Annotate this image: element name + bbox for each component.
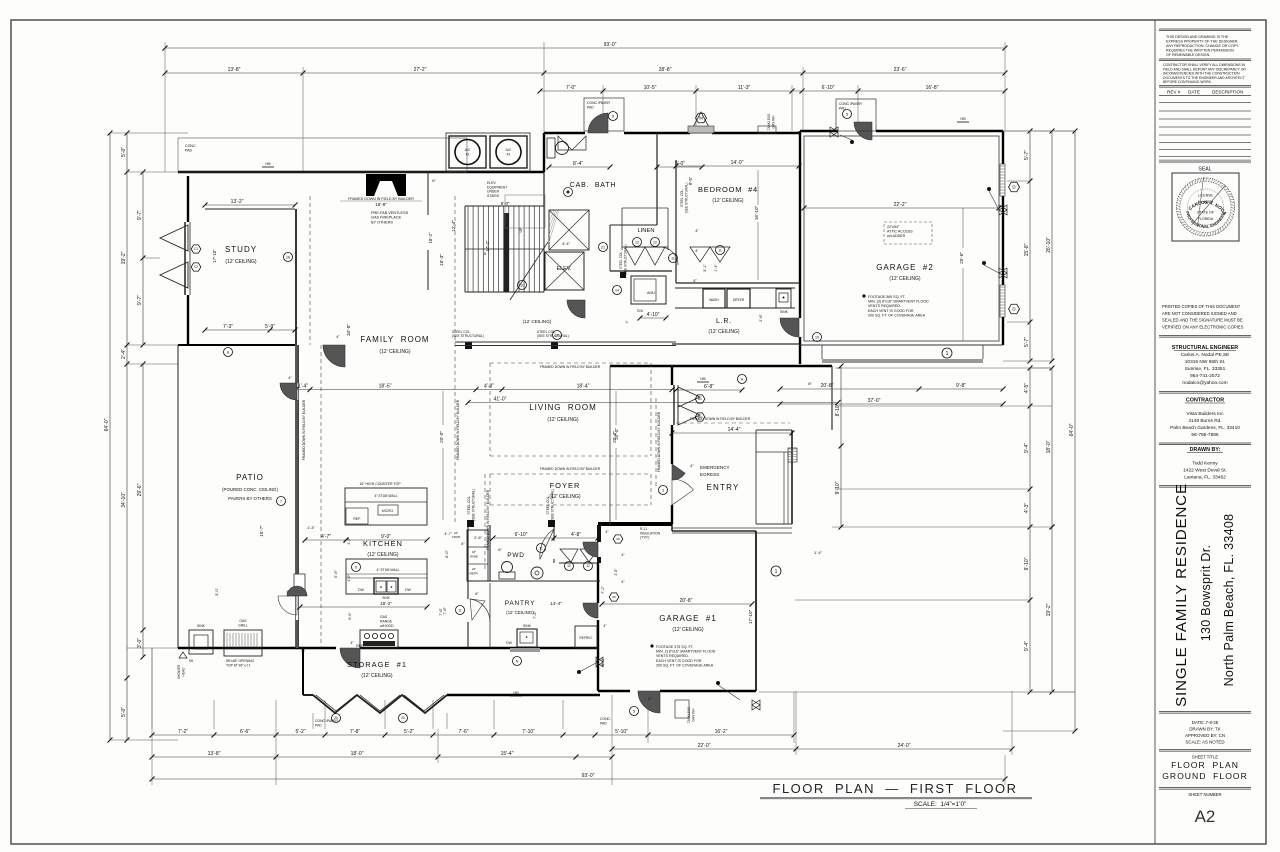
kitchen xyxy=(298,482,430,609)
pwd dims xyxy=(461,532,600,596)
left dim 64'-0" xyxy=(104,131,112,743)
sheet info block xyxy=(1159,712,1251,827)
hb bottom xyxy=(510,691,522,696)
svg-text:09: 09 xyxy=(616,537,620,541)
svg-text:1’-4”: 1’-4” xyxy=(814,550,823,555)
svg-text:AHU: AHU xyxy=(647,291,655,295)
svg-text:17’-10”: 17’-10” xyxy=(748,609,753,624)
svg-text:27’-2”: 27’-2” xyxy=(414,67,427,73)
svg-text:VENTS REQUIRED.: VENTS REQUIRED. xyxy=(868,304,901,308)
svg-text:STEEL COL.: STEEL COL. xyxy=(467,495,471,514)
svg-text:4’: 4’ xyxy=(625,320,629,323)
svg-text:DATE: 7-8-25: DATE: 7-8-25 xyxy=(1192,720,1219,725)
svg-text:(POURED CONC. CEILING): (POURED CONC. CEILING) xyxy=(222,487,278,492)
bottom dim row1 xyxy=(150,729,797,737)
svg-text:13’-2”: 13’-2” xyxy=(231,199,244,205)
svg-text:REF.: REF. xyxy=(353,517,360,521)
window M top xyxy=(688,112,714,133)
svg-text:FAMILY ROOM: FAMILY ROOM xyxy=(360,335,429,344)
svg-text:TANKLESS: TANKLESS xyxy=(767,114,771,130)
svg-text:6’-0”: 6’-0” xyxy=(445,549,449,557)
svg-text:OF RENEWABLE DESIGN.: OF RENEWABLE DESIGN. xyxy=(1166,53,1210,57)
entry xyxy=(614,427,794,505)
svg-text:FOYER: FOYER xyxy=(550,481,581,490)
svg-text:5’-2”: 5’-2” xyxy=(404,729,414,735)
bedroom #4 xyxy=(674,160,802,280)
dim chain x841 xyxy=(835,364,843,530)
svg-text:6’-8”: 6’-8” xyxy=(704,384,714,390)
right ext lines xyxy=(759,131,1075,692)
garage #1 xyxy=(600,566,781,710)
study circ16 xyxy=(284,253,293,262)
study label xyxy=(225,245,257,265)
svg-text:KITCHEN: KITCHEN xyxy=(363,539,403,548)
svg-text:17’-10”: 17’-10” xyxy=(212,249,217,263)
svg-text:7’-0”: 7’-0” xyxy=(566,85,576,91)
framed down vert right xyxy=(656,398,661,487)
svg-text:CAB. BATH: CAB. BATH xyxy=(570,182,616,189)
svg-text:LIVING ROOM: LIVING ROOM xyxy=(529,403,597,412)
door 09 top xyxy=(583,530,623,557)
storage bays xyxy=(303,695,447,723)
bath closet doors xyxy=(560,549,598,571)
svg-text:4’-7”: 4’-7” xyxy=(444,532,452,536)
svg-text:SINK: SINK xyxy=(780,310,789,314)
svg-text:LICENSE: LICENSE xyxy=(1198,194,1213,198)
svg-text:18’-2”: 18’-2” xyxy=(380,601,392,606)
ref label xyxy=(303,525,449,648)
svg-text:BY OTHERS: BY OTHERS xyxy=(371,220,393,224)
svg-text:A/C: A/C xyxy=(506,148,512,152)
svg-text:Todd Kenny: Todd Kenny xyxy=(1192,461,1218,467)
exterior walls xyxy=(178,131,1003,695)
svg-text:16’-8”: 16’-8” xyxy=(926,85,939,91)
svg-text:DRYER: DRYER xyxy=(733,298,745,302)
bottom wall extension lines xyxy=(152,648,794,743)
top dim row2 xyxy=(163,67,1008,75)
stairs notes xyxy=(428,181,545,266)
svg-text:64’-0”: 64’-0” xyxy=(1069,423,1075,436)
svg-text:ATTIC ACCESS: ATTIC ACCESS xyxy=(887,230,913,234)
svg-text:25’-6”: 25’-6” xyxy=(959,252,964,264)
svg-text:EMERGENCY: EMERGENCY xyxy=(700,465,730,470)
title block divider xyxy=(1154,20,1156,844)
laundry room xyxy=(693,279,791,335)
svg-text:200 SQ. FT. OF COVERAGE AREA: 200 SQ. FT. OF COVERAGE AREA xyxy=(868,314,926,318)
tankless gas wh label xyxy=(758,114,776,133)
svg-text:STAIRS: STAIRS xyxy=(487,194,500,198)
svg-text:GARAGE #2: GARAGE #2 xyxy=(876,263,934,272)
hall label xyxy=(518,281,562,340)
svg-text:(SEE STRUCTURAL): (SEE STRUCTURAL) xyxy=(472,489,476,521)
svg-text:SHEET TITLE: SHEET TITLE xyxy=(1192,755,1219,760)
steel col labels xyxy=(452,330,676,349)
svg-text:200 SQ. FT. OF COVERAGE AREA: 200 SQ. FT. OF COVERAGE AREA xyxy=(656,664,714,668)
stairs xyxy=(465,206,548,300)
svg-text:R/A: R/A xyxy=(637,309,643,313)
top dim extenders xyxy=(165,42,1005,172)
svg-text:STRUCTURAL ENGINEER: STRUCTURAL ENGINEER xyxy=(1172,345,1238,351)
hose bib HB top xyxy=(262,162,274,167)
svg-text:RANGE: RANGE xyxy=(380,620,393,624)
garage2 door5 xyxy=(836,99,876,140)
svg-text:SHOWER: SHOWER xyxy=(177,664,181,679)
svg-text:15’-7”: 15’-7” xyxy=(259,525,264,537)
svg-text:REV #: REV # xyxy=(1167,90,1181,95)
bedroom doors xyxy=(690,246,730,263)
svg-text:4’-5”: 4’-5” xyxy=(1024,383,1030,393)
svg-text:(12’ CEILING): (12’ CEILING) xyxy=(549,494,581,500)
svg-text:22’-2”: 22’-2” xyxy=(894,202,907,208)
svg-text:C1: C1 xyxy=(194,247,198,251)
svg-text:9’-10”: 9’-10” xyxy=(1024,557,1030,570)
svg-text:FRAMED DOWN IN FIELD BY BUILDE: FRAMED DOWN IN FIELD BY BUILDER xyxy=(657,411,661,472)
svg-text:4’-0”: 4’-0” xyxy=(347,574,351,582)
svg-text:CONTRACTOR: CONTRACTOR xyxy=(1186,398,1224,404)
svg-text:FOOTAGE 565 SQ. FT.: FOOTAGE 565 SQ. FT. xyxy=(868,295,906,299)
svg-text:7’-6”: 7’-6” xyxy=(439,607,443,615)
svg-text:HB: HB xyxy=(265,162,271,166)
entry bays xyxy=(674,385,705,425)
svg-text:64’-0”: 64’-0” xyxy=(104,418,110,431)
svg-text:ANY REPRODUCTION, CHANGE OR CO: ANY REPRODUCTION, CHANGE OR COPY xyxy=(1166,44,1239,48)
svg-text:93’-0”: 93’-0” xyxy=(604,42,617,48)
svg-text:Vista Builders Inc: Vista Builders Inc xyxy=(1187,411,1225,417)
patio door lower xyxy=(278,563,361,616)
svg-text:21: 21 xyxy=(601,245,605,249)
svg-text:PAD: PAD xyxy=(315,723,322,727)
storage door xyxy=(340,641,360,668)
conc pad bottom right xyxy=(600,717,611,725)
svg-text:6’-0”: 6’-0” xyxy=(348,612,352,620)
svg-text:DRAWN BY: TK: DRAWN BY: TK xyxy=(1189,727,1220,732)
framed down right2 xyxy=(676,417,790,423)
svg-text:REFR.: REFR. xyxy=(470,572,479,576)
closet stack xyxy=(444,530,488,581)
svg-text:PAD: PAD xyxy=(587,105,594,109)
svg-text:SINK: SINK xyxy=(197,624,206,628)
bottom dim extenders xyxy=(152,648,1012,785)
svg-text:(12’ CEILING): (12’ CEILING) xyxy=(523,319,552,324)
svg-text:16’-10”: 16’-10” xyxy=(754,205,759,220)
r11 note xyxy=(640,527,661,540)
svg-text:10’-5”: 10’-5” xyxy=(644,85,657,91)
svg-text:7’-8”: 7’-8” xyxy=(350,729,360,735)
family room dashed xyxy=(302,196,460,648)
svg-text:1: 1 xyxy=(946,351,949,357)
fireplace xyxy=(366,174,406,196)
svg-text:37’-0”: 37’-0” xyxy=(868,398,881,404)
svg-text:N: N xyxy=(516,659,519,663)
svg-text:FRAMED DOWN IN FIELD BY BUILDE: FRAMED DOWN IN FIELD BY BUILDER xyxy=(540,365,601,369)
svg-text:SEALED AND THE SIGNATURE MUST: SEALED AND THE SIGNATURE MUST BE xyxy=(1162,318,1243,323)
svg-text:11: 11 xyxy=(520,283,524,287)
svg-text:3: 3 xyxy=(662,488,664,492)
svg-text:12: 12 xyxy=(635,240,639,244)
svg-text:20’-0”: 20’-0” xyxy=(439,431,444,443)
svg-text:(TYP.): (TYP.) xyxy=(640,536,649,540)
svg-text:4” STUB WALL: 4” STUB WALL xyxy=(376,568,399,572)
bowtie bottom xyxy=(577,657,603,674)
porch step dim xyxy=(672,430,823,555)
svg-text:North Palm Beach, FL. 33408: North Palm Beach, FL. 33408 xyxy=(1222,514,1236,687)
revision table rows xyxy=(1159,103,1251,164)
svg-text:EXPRESS PROPERTY OF THE DESIGN: EXPRESS PROPERTY OF THE DESIGNER. xyxy=(1166,40,1239,44)
svg-text:12: 12 xyxy=(586,564,590,568)
svg-text:Lantana, FL. 33462: Lantana, FL. 33462 xyxy=(1184,475,1226,481)
svg-text:PAD: PAD xyxy=(185,149,193,153)
drawing title xyxy=(760,781,1032,809)
svg-text:GARAGE #1: GARAGE #1 xyxy=(659,614,717,623)
svg-text:6: 6 xyxy=(355,565,357,569)
linen xyxy=(622,228,668,265)
sink pantry xyxy=(506,624,537,647)
svg-text:#1: #1 xyxy=(507,153,511,157)
svg-text:5’-9”: 5’-9” xyxy=(265,324,275,330)
svg-text:SINGLE FAMILY RESIDENCE: SINGLE FAMILY RESIDENCE xyxy=(1173,483,1190,707)
svg-text:(SEE STRUCTURAL): (SEE STRUCTURAL) xyxy=(624,245,628,276)
svg-text:10316 NW 55th St.: 10316 NW 55th St. xyxy=(1185,359,1226,365)
left dim chain4 xyxy=(137,362,145,660)
svg-text:9’-7”: 9’-7” xyxy=(137,210,143,220)
svg-text:2’-8”: 2’-8” xyxy=(614,568,618,576)
svg-text:FLOOR PLAN — FIRST FLOOR: FLOOR PLAN — FIRST FLOOR xyxy=(773,781,1018,796)
svg-text:4’-4”: 4’-4” xyxy=(562,241,571,246)
pantry walls xyxy=(468,525,490,648)
svg-text:SINK: SINK xyxy=(523,624,532,628)
svg-text:(SEE STRUCTURAL): (SEE STRUCTURAL) xyxy=(537,334,569,338)
svg-text:7’-3”: 7’-3” xyxy=(223,324,233,330)
foyer label xyxy=(549,481,581,500)
svg-text:18’-0”: 18’-0” xyxy=(1046,440,1052,453)
svg-text:GAS: GAS xyxy=(239,619,247,623)
svg-text:9’-7”: 9’-7” xyxy=(137,295,143,305)
svg-text:9’-4”: 9’-4” xyxy=(1024,443,1030,453)
patio label xyxy=(222,473,285,506)
svg-text:FLORIDA: FLORIDA xyxy=(1198,217,1214,221)
svg-text:HB: HB xyxy=(700,377,706,381)
hb A bottom xyxy=(674,375,747,393)
pwd walls xyxy=(467,525,601,581)
svg-text:FOOTAGE 375 SQ. FT.: FOOTAGE 375 SQ. FT. xyxy=(656,645,694,649)
elevator xyxy=(545,241,608,290)
engineer/contractor/drawn-by block xyxy=(1159,304,1251,487)
svg-text:130 Bowsprit Dr.: 130 Bowsprit Dr. xyxy=(1199,545,1213,642)
svg-text:FRAMED DOWN IN FIELD BY BUILDE: FRAMED DOWN IN FIELD BY BUILDER xyxy=(348,197,414,201)
svg-text:5’-7”: 5’-7” xyxy=(1024,337,1030,347)
svg-text:DATE: DATE xyxy=(1188,90,1200,95)
svg-text:11: 11 xyxy=(718,248,722,252)
svg-text:DW: DW xyxy=(358,588,364,592)
svg-text:4” STUB WALL: 4” STUB WALL xyxy=(374,494,397,498)
svg-text:3’-0”: 3’-0” xyxy=(137,638,143,648)
svg-text:EACH VENT IS GOOD FOR: EACH VENT IS GOOD FOR xyxy=(868,309,914,313)
svg-text:PRINTED COPIES OF THIS DOCUMEN: PRINTED COPIES OF THIS DOCUMENT xyxy=(1162,304,1241,309)
svg-text:11: 11 xyxy=(458,608,462,612)
svg-text:18’-4”: 18’-4” xyxy=(577,384,590,390)
revision table header xyxy=(1159,29,1251,96)
refrig xyxy=(575,626,597,648)
svg-text:CONC.: CONC. xyxy=(185,144,197,148)
garage2 hb xyxy=(957,117,969,122)
svg-text:4’-8”: 4’-8” xyxy=(571,532,581,538)
svg-text:(12’ CEILING): (12’ CEILING) xyxy=(889,276,921,282)
svg-text:MIN. 2) 8”x16” SMARTVENT FLOOD: MIN. 2) 8”x16” SMARTVENT FLOOD xyxy=(656,650,716,654)
svg-text:PATIO: PATIO xyxy=(236,473,264,482)
svg-text:ARE NOT CONSIDERED SIGNED AND: ARE NOT CONSIDERED SIGNED AND xyxy=(1162,311,1237,316)
svg-text:SEAL: SEAL xyxy=(1198,167,1211,173)
study bottom door xyxy=(224,335,346,367)
garage2 windows right xyxy=(982,164,1020,317)
svg-text:FRAMED DOWN IN FIELD BY BUILDE: FRAMED DOWN IN FIELD BY BUILDER xyxy=(456,399,460,460)
svg-text:8’-0”: 8’-0” xyxy=(501,201,510,206)
fireplace note xyxy=(371,211,409,224)
svg-text:56-795-7886: 56-795-7886 xyxy=(1191,432,1219,438)
svg-text:Carlos A. Nodal PE,SE: Carlos A. Nodal PE,SE xyxy=(1181,352,1230,358)
svg-text:09: 09 xyxy=(612,595,616,599)
svg-text:FRAMED DOWN IN FIELD BY BUILDE: FRAMED DOWN IN FIELD BY BUILDER xyxy=(302,399,306,460)
svg-text:1422 West Duval St.: 1422 West Duval St. xyxy=(1183,468,1227,474)
svg-text:18’-5”: 18’-5” xyxy=(379,384,392,390)
svg-text:6’-10”: 6’-10” xyxy=(515,532,528,538)
svg-text:PWD: PWD xyxy=(507,552,525,559)
svg-text:9’-6”: 9’-6” xyxy=(688,176,693,185)
svg-text:11: 11 xyxy=(671,256,675,260)
living room label xyxy=(529,403,597,423)
A/C pads xyxy=(446,133,530,171)
svg-text:9’-0”: 9’-0” xyxy=(381,534,391,540)
svg-text:2’-4”: 2’-4” xyxy=(121,349,127,359)
svg-text:STEEL COL.: STEEL COL. xyxy=(619,251,623,269)
svg-text:SH: SH xyxy=(189,659,194,663)
svg-text:FLOOR PLAN: FLOOR PLAN xyxy=(1171,760,1239,770)
svg-text:(12’ CEILING): (12’ CEILING) xyxy=(361,673,393,679)
svg-text:DESCRIPTION: DESCRIPTION xyxy=(1212,90,1243,95)
right dim chainB xyxy=(1024,366,1032,695)
svg-text:5’-0”: 5’-0” xyxy=(121,147,127,157)
svg-text:SHEET NUMBER: SHEET NUMBER xyxy=(1188,792,1221,797)
svg-text:GAS WH: GAS WH xyxy=(772,115,776,129)
door 10 right xyxy=(780,318,822,342)
svg-text:5’-0”: 5’-0” xyxy=(600,657,605,666)
svg-text:1’-4”: 1’-4” xyxy=(307,525,316,530)
svg-text:7’-6”: 7’-6” xyxy=(458,729,468,735)
svg-text:2’-6”: 2’-6” xyxy=(474,535,483,540)
top dim 93'-0" xyxy=(163,42,1008,50)
dim 13'-2 study xyxy=(203,199,298,207)
storage label xyxy=(347,660,407,679)
svg-text:22”x54”: 22”x54” xyxy=(887,225,900,229)
svg-text:REFRIG.: REFRIG. xyxy=(579,636,592,640)
dim 20'-8 37'-0 right xyxy=(778,383,1006,406)
svg-text:19’-2”: 19’-2” xyxy=(121,251,127,264)
left dim chain3 xyxy=(137,170,145,348)
svg-text:5’-2”: 5’-2” xyxy=(295,729,305,735)
svg-text:4’-3”: 4’-3” xyxy=(484,384,494,390)
right dim chainC2 xyxy=(1046,366,1054,530)
svg-text:14’-4”: 14’-4” xyxy=(728,427,741,433)
svg-text:GAS FIREPLACE: GAS FIREPLACE xyxy=(371,216,402,220)
svg-text:REQUIRES THE WRITTEN PERMISSIO: REQUIRES THE WRITTEN PERMISSION xyxy=(1166,49,1234,53)
garage1 tankless xyxy=(675,700,696,723)
svg-text:Palm Beach Gardens, FL. 33410: Palm Beach Gardens, FL. 33410 xyxy=(1170,425,1240,431)
interior walls xyxy=(205,133,800,648)
cab bath xyxy=(547,138,705,250)
svg-text:14: 14 xyxy=(615,288,619,292)
svg-text:20: 20 xyxy=(401,716,405,720)
steel col lr xyxy=(619,245,628,278)
svg-text:23’-6”: 23’-6” xyxy=(894,67,907,73)
svg-text:7’-6”: 7’-6” xyxy=(443,606,447,614)
svg-text:ENTRY: ENTRY xyxy=(707,483,740,492)
svg-text:18”: 18” xyxy=(472,550,476,554)
svg-text:4’-7”: 4’-7” xyxy=(321,534,331,540)
svg-text:STEEL COL.: STEEL COL. xyxy=(680,189,684,207)
svg-text:PANTRY: PANTRY xyxy=(505,600,536,607)
patio dims xyxy=(214,525,338,596)
svg-text:22’-0”: 22’-0” xyxy=(698,743,711,749)
svg-text:VERIFIED ON ANY ELECTRONIC COP: VERIFIED ON ANY ELECTRONIC COPIES xyxy=(1162,324,1244,329)
AHU closet xyxy=(613,276,669,323)
svg-text:5’-7”: 5’-7” xyxy=(1024,150,1030,160)
steel col mid labels xyxy=(467,489,555,527)
svg-text:SINK: SINK xyxy=(382,596,390,600)
garage2 bottom wall xyxy=(800,345,1003,363)
garage #2 xyxy=(802,136,1002,386)
left dim chain2 xyxy=(121,131,129,743)
svg-text:BEFORE CONTINUING WORK.: BEFORE CONTINUING WORK. xyxy=(1163,80,1212,84)
svg-text:19’-2”: 19’-2” xyxy=(1046,603,1052,616)
svg-text:4’-3”: 4’-3” xyxy=(1024,503,1030,513)
svg-text:HEAD: HEAD xyxy=(182,667,186,677)
svg-text:Sunrise, FL. 33351: Sunrise, FL. 33351 xyxy=(1185,366,1226,372)
svg-text:(SEE STRUCTURAL): (SEE STRUCTURAL) xyxy=(685,183,689,214)
svg-text:4149 Burns Rd.: 4149 Burns Rd. xyxy=(1188,418,1221,424)
svg-text:28’-8”: 28’-8” xyxy=(659,67,672,73)
svg-text:B1: B1 xyxy=(698,397,702,401)
svg-text:#2: #2 xyxy=(466,153,470,157)
svg-text:3’-1”: 3’-1” xyxy=(703,263,707,271)
family room label xyxy=(360,335,429,355)
right dim 64'-0" xyxy=(1069,129,1077,734)
svg-text:(12’ CEILING): (12’ CEILING) xyxy=(708,329,740,335)
garage1 door xyxy=(630,691,661,716)
svg-text:954-741-2572: 954-741-2572 xyxy=(1190,373,1220,379)
svg-text:BEDROOM #4: BEDROOM #4 xyxy=(698,185,758,194)
right dim chainC xyxy=(1046,129,1054,364)
framed-down note top xyxy=(340,197,422,207)
svg-text:20’-8”: 20’-8” xyxy=(680,598,693,604)
svg-text:18’-8”: 18’-8” xyxy=(375,202,387,207)
svg-text:18’-2”: 18’-2” xyxy=(428,232,433,243)
svg-text:18’-0”: 18’-0” xyxy=(351,751,364,757)
svg-text:1: 1 xyxy=(775,569,778,575)
svg-text:M: M xyxy=(699,116,703,121)
pantry xyxy=(439,599,562,622)
svg-text:16: 16 xyxy=(286,255,290,259)
svg-text:w/LADDER: w/LADDER xyxy=(887,234,906,238)
svg-text:24”: 24” xyxy=(472,567,476,571)
svg-text:(12’ CEILING): (12’ CEILING) xyxy=(712,198,744,204)
svg-text:TOP AT 96” o.f.f.: TOP AT 96” o.f.f. xyxy=(226,663,251,667)
svg-text:5’-6”: 5’-6” xyxy=(333,569,338,578)
svg-text:GAS WH: GAS WH xyxy=(692,708,696,722)
svg-text:7’-2”: 7’-2” xyxy=(533,610,537,618)
svg-text:PAD: PAD xyxy=(839,106,846,110)
bottom dim row3 xyxy=(150,773,1008,781)
svg-text:41’-0”: 41’-0” xyxy=(494,397,507,403)
svg-text:STORAGE #1: STORAGE #1 xyxy=(347,660,407,669)
